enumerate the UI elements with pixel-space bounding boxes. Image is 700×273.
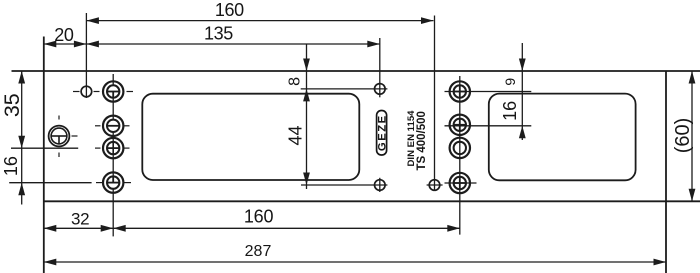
extension line y88.8 (8 dim, to circle) bbox=[301, 88, 388, 90]
arrow 35 up bbox=[18, 71, 25, 84]
arrow 16 left lower up bbox=[18, 183, 25, 196]
svg-text:35: 35 bbox=[0, 93, 24, 117]
centerline ticks left hole row4 bbox=[96, 182, 102, 184]
right hole 2 bbox=[450, 115, 470, 135]
arrow 160top left bbox=[86, 17, 99, 24]
arrow 135 right bbox=[367, 41, 380, 48]
left cutout rounded rect bbox=[142, 94, 359, 180]
arrow (60) up bbox=[689, 71, 696, 84]
arrow 44 bottom down bbox=[303, 173, 310, 186]
arrow 35 down / 16 upper bbox=[18, 136, 25, 149]
centerline right hole column bbox=[459, 76, 461, 235]
extension line y91.5 right (9 dim) bbox=[445, 91, 532, 93]
right hole 3 bbox=[450, 138, 470, 158]
left hole 3 bbox=[103, 138, 123, 158]
arrow (60) down bbox=[689, 189, 696, 202]
arrow 20 left bbox=[44, 41, 57, 48]
plate right edge bbox=[665, 71, 667, 273]
right hole 4 bbox=[450, 173, 470, 193]
extension line x434 (160 top end down to circle) bbox=[434, 16, 436, 192]
plate bottom edge bbox=[44, 200, 700, 202]
svg-text:44: 44 bbox=[285, 125, 305, 145]
extension line x86 (20/160/135 node) bbox=[85, 13, 87, 98]
arrow 9 top down bbox=[519, 59, 526, 72]
svg-text:8: 8 bbox=[286, 77, 303, 86]
small circle x434 (160 end) bbox=[429, 180, 440, 191]
left hole 4 bbox=[103, 172, 123, 192]
dimension line 20/135 chain bbox=[44, 43, 380, 45]
arrow 32 left bbox=[44, 225, 57, 232]
svg-text:160: 160 bbox=[244, 207, 274, 227]
svg-text:16: 16 bbox=[1, 156, 21, 176]
right cutout rounded rect bbox=[489, 94, 636, 181]
svg-text:32: 32 bbox=[71, 209, 89, 228]
right hole 1 bbox=[450, 81, 470, 101]
arrow 160b right bbox=[447, 225, 460, 232]
centerline ticks left hole row1 bbox=[73, 91, 80, 93]
tick through right hole row4 bbox=[445, 182, 477, 184]
arrow 32 right bbox=[101, 225, 114, 232]
dimension line (60) bbox=[691, 71, 693, 201]
svg-text:TS 400/500: TS 400/500 bbox=[416, 111, 428, 170]
small circle mid-top (135 end) bbox=[375, 84, 386, 95]
svg-text:(60): (60) bbox=[672, 118, 694, 154]
svg-text:GEZE: GEZE bbox=[376, 114, 388, 151]
extension line y148 (35/16 boundary) bbox=[11, 147, 78, 149]
plate top edge bbox=[12, 70, 700, 72]
left hole 2 bbox=[103, 116, 123, 136]
arrow 8 top down bbox=[303, 59, 310, 72]
arrow 8/44 shared up bbox=[303, 89, 310, 102]
svg-text:16: 16 bbox=[500, 101, 520, 121]
arrow 287 left bbox=[44, 259, 57, 266]
dimension line 287 bbox=[44, 261, 666, 263]
extension line x380 lower tick bbox=[379, 178, 381, 192]
extension line y125.8 right (16 dim) bbox=[445, 125, 532, 127]
arrow 20 right bbox=[74, 41, 87, 48]
plate left edge bbox=[43, 37, 45, 273]
dimension line 9/16 right bbox=[521, 43, 523, 140]
arrow 160top right bbox=[421, 17, 434, 24]
arrow 287 right bbox=[654, 259, 667, 266]
centerline ticks left hole row3 bbox=[95, 147, 101, 149]
svg-text:287: 287 bbox=[245, 243, 272, 260]
centerline ticks big left hole bbox=[72, 135, 78, 137]
svg-text:135: 135 bbox=[204, 24, 233, 44]
dimension line 32/160 chain bottom bbox=[44, 227, 460, 229]
extension line y182.7 (16 left bottom) bbox=[9, 182, 91, 184]
small circle mid-bottom (44 end) bbox=[375, 180, 386, 191]
big left hole bbox=[49, 126, 70, 147]
GEZE logo box bbox=[377, 111, 387, 156]
svg-text:20: 20 bbox=[54, 25, 74, 45]
svg-text:160: 160 bbox=[215, 0, 244, 20]
centerline ticks left hole row2 bbox=[95, 125, 101, 127]
arrow 135 left bbox=[86, 41, 99, 48]
dimension line 35/16 left bbox=[21, 71, 23, 205]
extension line x380 (135 end, through circles) bbox=[379, 38, 381, 97]
dimension line 160 top bbox=[86, 20, 433, 22]
arrow 160b left bbox=[113, 225, 126, 232]
left hole 1 bbox=[103, 81, 123, 101]
extension line y185 (44 bottom, to circle) bbox=[301, 184, 387, 186]
svg-text:9: 9 bbox=[502, 78, 518, 86]
dimension line 8/44 bbox=[306, 44, 308, 189]
centerline left hole column bbox=[112, 74, 114, 85]
tick through circle x434 bbox=[427, 184, 443, 186]
small circle top-left bbox=[81, 86, 92, 97]
arrow 16 right bottom up bbox=[519, 126, 526, 139]
